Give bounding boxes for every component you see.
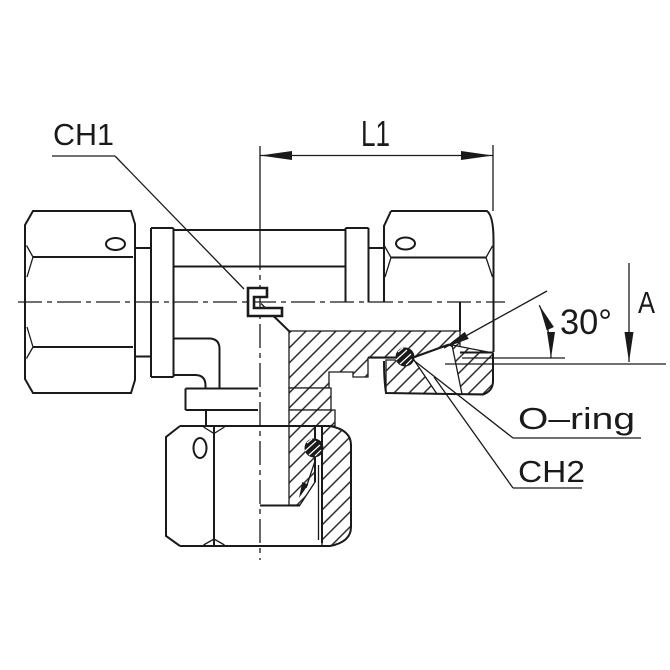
stem bottom face [260,505,300,507]
svg-text:L1: L1 [361,113,390,154]
svg-text:O–ring: O–ring [518,401,635,436]
right nut flat line [391,257,486,259]
left flange [151,228,174,377]
left nut outline [25,211,135,393]
30deg leader arrowhead [444,332,469,348]
body tube bore line [174,266,346,268]
O-ring dot bottom port [305,439,324,458]
stem groove line [318,465,320,540]
O-ring underline [513,437,641,439]
svg-text:A: A [638,285,655,320]
right nut lower outline [384,353,493,395]
bottom O-ring leader line [306,460,316,489]
30deg slant leader line [444,291,547,348]
L1 dimension line [260,155,493,157]
svg-text:CH1: CH1 [53,117,114,152]
right port face line [368,357,413,359]
vertical centerline (branch axis / L1 left extension) [259,146,261,246]
bottom nut outline [166,426,351,546]
bottom nut bore line [321,426,323,543]
washer2 left [206,410,258,426]
body elbow outer [174,339,220,389]
CH2 underline [513,487,582,489]
right nut lower-left section lobe [386,360,437,394]
horizontal centerline [18,301,505,303]
small chamfer under clip notch [261,304,266,309]
svg-text:CH2: CH2 [518,454,585,489]
body section hatch (T-shape) [289,331,460,388]
CH2 leader [434,377,513,488]
retaining clip (CH1) [248,288,282,316]
CH1 leader [115,156,244,289]
A dimension line [628,263,630,362]
right port lip line [460,352,494,354]
stem section upper [289,426,315,505]
body tube top line [174,229,346,231]
bottom O-ring leader arrowhead [299,482,308,498]
right flange [346,228,369,303]
right port seat 30deg line [413,345,449,358]
A arrowhead [625,332,634,362]
O-ring dot right port [396,348,415,367]
L1 left arrowhead [260,151,292,160]
CH1 underline [52,155,115,157]
tube stub between right flange and right nut [369,247,385,249]
L1 right arrowhead [461,151,493,160]
washer2 right section [289,410,335,426]
A extension line [445,363,666,365]
O-ring leader [412,359,513,438]
left nut flat line upper [33,256,133,258]
thread zone right vertical [459,303,461,332]
left nut ellipse mark [106,238,125,250]
30deg arc [539,305,551,358]
thread chamfer slant from clip foot [274,316,290,332]
bottom nut chamfer facets [204,427,225,545]
30deg horizontal arm [462,357,565,359]
left nut chamfer marks [27,246,34,359]
L1 right extension line [492,145,494,211]
right nut outline [384,211,494,352]
washer1 left [186,389,259,411]
right nut ellipse mark [396,238,415,250]
left nut flat line lower [33,346,133,348]
body elbow inner [174,375,206,389]
right nut chamfer marks [385,246,493,277]
30deg arc arrow top [539,305,554,330]
svg-text:30°: 30° [560,303,612,342]
stem right wall thick line [314,426,316,482]
right nut lower-right section lobe [452,345,493,394]
bottom nut ellipse mark [194,438,207,458]
30deg arc arrow bottom [547,332,555,358]
washer1 right section [289,388,331,410]
bottom nut hex line [213,426,215,546]
bottom nut right section [322,426,351,546]
tube stubs between left nut and flange [135,247,151,249]
